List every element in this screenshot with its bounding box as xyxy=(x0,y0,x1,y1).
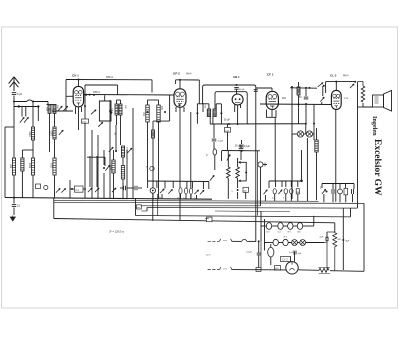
vertical right nest xyxy=(350,209,352,217)
wires lamps xyxy=(292,133,297,135)
switch arrow lower osc xyxy=(98,122,103,127)
vertical 343 power xyxy=(342,208,344,270)
vertical heater row2 left xyxy=(264,219,266,251)
wire CH1 top cap xyxy=(78,80,80,87)
resistor top right xyxy=(297,87,300,95)
switch osc xyxy=(105,165,109,170)
trimmer capacitor antenna 2 xyxy=(24,117,28,122)
coil lower second xyxy=(121,166,124,180)
tube CH1 xyxy=(73,86,83,106)
svg-text:2µF: 2µF xyxy=(320,237,324,239)
wire below zigzag xyxy=(334,247,336,271)
svg-text:50 pF: 50 pF xyxy=(224,120,230,122)
switch arrow right top xyxy=(318,83,323,87)
mains dashed line 1 xyxy=(208,240,220,242)
wires IF2 xyxy=(227,151,229,168)
svg-text:10n: 10n xyxy=(158,197,161,199)
wire left column bottoms to bus xyxy=(13,175,15,198)
wire rectifier output xyxy=(298,269,319,272)
wire speaker connections xyxy=(357,90,359,208)
wire CF1 cathode loop xyxy=(267,110,277,118)
capacitor 50pF right xyxy=(305,87,307,96)
switch arrow det row 3 xyxy=(194,190,198,194)
wire CL2 top xyxy=(335,82,337,91)
svg-text:0,1µF: 0,1µF xyxy=(244,146,251,148)
capacitor 1uF above CY2 xyxy=(294,252,296,262)
jog wire left of switch xyxy=(87,156,105,158)
coil 2011 osc padder xyxy=(121,146,124,157)
svg-text:CH 1: CH 1 xyxy=(72,74,79,78)
trimmer cluster1 a xyxy=(264,190,268,195)
switch arrow det row 1 xyxy=(160,189,164,193)
cap circle small AF xyxy=(150,166,154,170)
svg-text:2: 2 xyxy=(283,198,284,200)
verticals right section xyxy=(291,87,293,199)
wire rail down to GP2 grid row xyxy=(151,80,153,93)
coil 150 xyxy=(48,105,51,114)
svg-text:CF 1: CF 1 xyxy=(267,73,274,77)
capacitor 6pF antenna series xyxy=(12,92,17,94)
wire 9000 to bus xyxy=(113,173,115,198)
verticals mid-left to bus xyxy=(91,130,93,198)
svg-text:GP 2: GP 2 xyxy=(173,72,180,76)
trimmer right of coils 2 xyxy=(63,106,67,111)
vertical drop mid xyxy=(157,194,159,216)
trimmer extra mid xyxy=(112,188,116,192)
tube CB1 magic eye xyxy=(232,94,243,105)
inner pi rail over CB1 xyxy=(215,92,247,124)
svg-text:CB1: CB1 xyxy=(297,231,301,233)
volume pot with dot xyxy=(150,188,155,193)
svg-text:6 pF: 6 pF xyxy=(17,92,23,96)
wire lamp middle feed xyxy=(305,124,307,134)
vertical IF3 right with node xyxy=(220,104,222,124)
wires IF1 bottoms xyxy=(147,122,149,181)
speaker xyxy=(373,95,384,107)
switch det xyxy=(210,175,214,180)
capacitor cluster2 a xyxy=(331,189,333,194)
antenna xyxy=(9,77,20,91)
legs detector down xyxy=(152,193,154,221)
coil 3000 column xyxy=(53,158,56,175)
coil small 90 xyxy=(152,130,155,138)
pilot lamp 2 xyxy=(306,131,312,137)
wire heater row2 to cap xyxy=(324,242,327,244)
resistor oval cluster1 a xyxy=(273,189,276,194)
svg-text:WD: WD xyxy=(338,239,342,241)
wire top rail CL2 to speaker xyxy=(326,81,356,83)
vertical 292 to bus xyxy=(291,134,293,199)
bus line 8 long loop xyxy=(54,219,335,223)
resistor oval det a xyxy=(179,188,182,194)
vertical IF3 left with node xyxy=(196,104,198,124)
wire y87 right xyxy=(290,87,317,89)
IF transformer 2 coil B xyxy=(236,167,240,178)
coil 500 left column xyxy=(12,158,15,175)
svg-text:5n: 5n xyxy=(183,198,185,200)
pilot lamp 1 xyxy=(297,131,303,137)
trimmer right of coils 1 xyxy=(58,106,62,111)
bus line 6 short xyxy=(215,210,290,213)
osc coil pair xyxy=(115,104,118,115)
svg-text:1µF: 1µF xyxy=(298,253,302,255)
wire wrap to CH1 grid xyxy=(66,95,73,97)
capacitor circle symbol 1 xyxy=(123,186,125,191)
svg-text:3000: 3000 xyxy=(51,162,53,168)
electrolytic oval lower xyxy=(213,149,217,155)
wire antenna down xyxy=(13,96,15,159)
outer pi rail over CB1 xyxy=(203,85,256,104)
coil 190 xyxy=(53,105,56,114)
svg-text:CL2: CL2 xyxy=(278,231,281,233)
loop rect right of CH1 xyxy=(99,101,111,121)
heater chain row 1 xyxy=(266,223,271,230)
bus line 5 xyxy=(147,207,358,210)
bus line 4 to und box xyxy=(141,205,260,207)
IF2 bracket with arrows xyxy=(239,162,247,181)
bus line 7 xyxy=(136,216,351,217)
wire CF1 divider vertical xyxy=(255,88,257,241)
capacitor to ground at bus left xyxy=(13,197,15,199)
wire CH1 pins down xyxy=(75,107,77,114)
wire down from rail end xyxy=(198,80,200,104)
coil 1550 xyxy=(31,127,34,140)
svg-text:CL 2: CL 2 xyxy=(330,74,337,78)
node cluster2 xyxy=(326,191,328,193)
wire left return xyxy=(4,127,6,198)
bracket top cluster 2 xyxy=(322,183,354,185)
bus line 3 xyxy=(54,202,364,203)
wires IF1 tops xyxy=(147,100,149,105)
svg-text:2M: 2M xyxy=(296,192,299,194)
legs cluster1 down xyxy=(274,194,276,201)
switch mid 2 xyxy=(128,148,132,153)
wire osc bottom xyxy=(115,125,117,150)
resistor 150 box xyxy=(82,119,89,123)
switch stub at IF2 line xyxy=(221,151,223,161)
tube GP2 xyxy=(174,89,186,107)
node blob cluster1 xyxy=(300,180,303,183)
resistor box cluster2 xyxy=(344,188,348,195)
wire rail left segment xyxy=(250,269,286,271)
label CY2 box xyxy=(281,257,291,262)
cap box on bus left xyxy=(36,184,41,189)
capacitor cluster2 b xyxy=(351,189,353,194)
wire CF1 top xyxy=(271,88,273,91)
wires IF3 bottoms xyxy=(209,117,211,125)
legs cluster2 xyxy=(332,194,334,202)
ground xyxy=(10,216,15,222)
cap circle on bus left xyxy=(44,185,48,189)
coil 9000 xyxy=(112,160,115,173)
capacitor circle symbol 2 xyxy=(134,186,136,191)
capacitor 0.1uF lower xyxy=(212,138,217,140)
thick line y104 xyxy=(260,103,331,106)
svg-text:Excelsior GW: Excelsior GW xyxy=(372,139,382,196)
svg-text:0,1µF: 0,1µF xyxy=(218,141,224,143)
trimmer pair mid xyxy=(88,188,92,192)
wire CF1 down xyxy=(274,117,276,181)
mains dashed line 2 xyxy=(208,269,220,271)
resistor 145 box xyxy=(225,128,231,133)
vertical row1 right link xyxy=(313,216,315,226)
barrel component on loop line xyxy=(207,217,213,222)
rectifier tube CY2 xyxy=(286,262,298,274)
trimmer cluster1 b xyxy=(278,190,282,195)
svg-text:0,1µF: 0,1µF xyxy=(247,252,253,254)
capacitor 2uF smoothing 1 xyxy=(326,232,328,238)
wire coil feed down xyxy=(47,102,49,105)
svg-text:CF 6: CF 6 xyxy=(283,237,287,239)
node on outer rail xyxy=(236,84,238,86)
resistor left small xyxy=(21,158,24,171)
capacitor 0.1uF across mains xyxy=(258,241,260,252)
svg-text:CY 2: CY 2 xyxy=(282,258,288,262)
wire heater row2 left down xyxy=(264,243,266,245)
vertical loop to smoothing xyxy=(334,223,336,233)
tube CF1 xyxy=(266,91,278,109)
svg-text:3000: 3000 xyxy=(50,130,53,136)
bracket top detector row xyxy=(148,180,209,183)
IF coil 300 xyxy=(146,105,149,122)
wire coil bottoms xyxy=(32,140,34,158)
urdox regulator tube xyxy=(268,247,274,257)
cap 0.1 box left-mid xyxy=(75,186,84,192)
svg-text:5000: 5000 xyxy=(30,162,32,168)
ground bus main xyxy=(5,198,212,200)
svg-text:465 kc: 465 kc xyxy=(106,76,114,79)
vertical mains left xyxy=(260,211,262,241)
wire osc coil connections xyxy=(109,100,111,198)
lamp symbol cluster2 xyxy=(338,189,343,194)
resistor oval det c xyxy=(189,188,192,194)
svg-text:50 µF: 50 µF xyxy=(239,89,245,91)
long vertical divider 3 xyxy=(260,167,262,206)
capacitor 50uF bypass xyxy=(240,145,242,148)
wire GP2 top rail xyxy=(176,79,200,81)
vertical und drop xyxy=(135,199,137,216)
trimmer right of 3000 coil xyxy=(59,130,63,135)
smoothing resistor vertical zigzag xyxy=(333,233,337,247)
svg-text:465 kc: 465 kc xyxy=(93,91,101,94)
capacitor grid CF1 xyxy=(254,89,258,91)
capacitor 0.1uF IF2 xyxy=(241,140,243,144)
svg-text:1n: 1n xyxy=(177,198,179,200)
resistor oval cluster1 b xyxy=(284,189,287,194)
IF coil 200 xyxy=(157,105,160,122)
wire osc verticals xyxy=(84,85,86,198)
resistor box cluster1 2M xyxy=(296,189,299,194)
wire left wrap of CH1 xyxy=(65,80,67,112)
wire plate jog y85 xyxy=(85,84,118,86)
heater chain row 2 xyxy=(273,239,278,245)
wire antenna coupling top with hop xyxy=(14,100,48,102)
switch arrow det row 4 xyxy=(200,190,204,194)
svg-text:JF = 128,5 kc: JF = 128,5 kc xyxy=(109,231,125,234)
dial lamp 2 xyxy=(300,240,306,246)
wire node row y124 xyxy=(210,123,306,125)
svg-text:10 m: 10 m xyxy=(206,255,211,257)
IF transformer 465 xyxy=(207,109,210,117)
switch arrow det row 2 xyxy=(168,189,172,193)
coil 3000 input xyxy=(53,127,56,139)
corner AVC to screen line xyxy=(305,105,307,124)
coil 5000 xyxy=(31,158,34,175)
svg-text:CF1: CF1 xyxy=(287,231,290,233)
svg-text:8µF: 8µF xyxy=(346,241,350,243)
wire input horizontal 2 xyxy=(14,106,38,108)
tube CL2 xyxy=(331,90,341,109)
svg-text:Ingelen: Ingelen xyxy=(371,116,378,136)
switch arrow below rail xyxy=(91,110,96,115)
trimmer cluster2 xyxy=(322,189,326,194)
IF transformer 2 coil A xyxy=(227,167,231,178)
trimmer capacitor antenna 1 xyxy=(20,117,24,122)
svg-text:und: und xyxy=(137,207,140,209)
grid stopper into CL2 xyxy=(322,86,324,96)
wire rail right segment xyxy=(330,270,364,273)
svg-text:1,5: 1,5 xyxy=(272,197,275,199)
resistor zigzag horizontal on rail xyxy=(319,268,329,272)
vertical 364 power xyxy=(363,203,365,271)
svg-text:CY2: CY2 xyxy=(266,231,270,233)
capacitor 50uF below rail xyxy=(234,86,239,88)
svg-text:9000: 9000 xyxy=(110,164,112,170)
verticals GP2 area xyxy=(158,130,160,199)
svg-text:AM 4: AM 4 xyxy=(186,73,192,76)
tuning key symbol xyxy=(258,162,263,167)
resistor oval cluster1 c xyxy=(290,189,293,194)
dial lamp 1 xyxy=(292,240,298,246)
svg-text:PM 4: PM 4 xyxy=(343,76,349,78)
box USA xyxy=(275,266,281,271)
trimmer pair left xyxy=(56,188,60,192)
switch mid 1 xyxy=(109,147,113,152)
wire CB1 pins xyxy=(234,105,236,112)
svg-text:CB 1: CB 1 xyxy=(233,75,240,79)
svg-text:1550: 1550 xyxy=(29,131,32,137)
resistor right column xyxy=(315,140,318,152)
wires IF3 tops xyxy=(208,104,210,109)
resistor oval det b xyxy=(184,188,187,194)
detector output row xyxy=(237,189,239,191)
vertical bus drop left xyxy=(53,198,55,219)
box small on rail xyxy=(256,268,261,272)
long vertical divider 2 xyxy=(257,151,259,216)
wire jog y121 xyxy=(153,120,170,122)
output field coil zigzag xyxy=(358,82,365,103)
wire top rail y79.5 xyxy=(66,79,152,81)
box und xyxy=(137,205,142,209)
switch 7 contact xyxy=(227,154,230,160)
bracket top cluster 1 xyxy=(269,180,301,182)
svg-text:PTK: PTK xyxy=(344,98,349,100)
wire stubs to trimmers xyxy=(21,107,23,117)
stub arrows mid verticals xyxy=(89,156,91,187)
capacitor 5pF near speaker xyxy=(350,84,354,88)
legs detector row up xyxy=(147,181,149,188)
bus line 2 xyxy=(54,200,319,201)
wire rail y94.5 to GP2 xyxy=(85,94,175,97)
svg-text:2n: 2n xyxy=(194,198,196,200)
